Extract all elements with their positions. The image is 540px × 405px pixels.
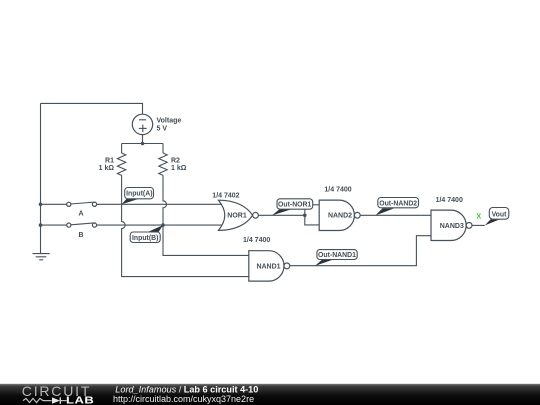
svg-text:Voltage: Voltage xyxy=(157,118,182,125)
svg-text:Out-NOR1: Out-NOR1 xyxy=(278,202,311,209)
svg-text:http://circuitlab.com/cukyxq37: http://circuitlab.com/cukyxq37ne2re xyxy=(113,394,254,404)
svg-text:LAB: LAB xyxy=(66,396,94,405)
svg-text:B: B xyxy=(78,232,83,239)
svg-text:R1: R1 xyxy=(105,157,114,164)
svg-text:Vout: Vout xyxy=(492,212,508,219)
svg-text:5 V: 5 V xyxy=(157,125,168,132)
svg-text:A: A xyxy=(78,211,83,218)
svg-text:Input(A): Input(A) xyxy=(126,191,152,198)
svg-text:Input(B): Input(B) xyxy=(132,235,158,242)
svg-text:1 kΩ: 1 kΩ xyxy=(171,165,187,172)
svg-text:1/4 7400: 1/4 7400 xyxy=(324,187,351,194)
svg-text:Lord_Infamous / Lab 6 circuit: Lord_Infamous / Lab 6 circuit 4-10 xyxy=(115,384,258,394)
svg-text:X: X xyxy=(476,211,481,220)
svg-text:Out-NAND2: Out-NAND2 xyxy=(379,200,417,207)
svg-text:1/4 7400: 1/4 7400 xyxy=(243,237,270,244)
svg-text:1/4 7400: 1/4 7400 xyxy=(436,197,463,204)
svg-text:R2: R2 xyxy=(171,157,180,164)
svg-text:1 kΩ: 1 kΩ xyxy=(99,165,115,172)
svg-text:Out-NAND1: Out-NAND1 xyxy=(318,252,356,259)
svg-text:NOR1: NOR1 xyxy=(227,213,247,220)
svg-text:1/4 7402: 1/4 7402 xyxy=(212,192,239,199)
svg-text:NAND1: NAND1 xyxy=(256,263,280,270)
svg-text:NAND3: NAND3 xyxy=(440,223,464,230)
svg-text:NAND2: NAND2 xyxy=(328,213,352,220)
